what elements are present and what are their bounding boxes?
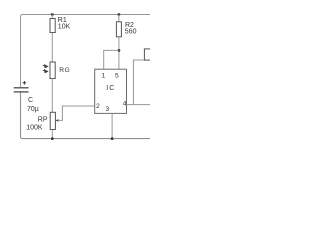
op-amp U1 IC box bbox=[95, 69, 127, 113]
svg-text:5: 5 bbox=[115, 72, 119, 79]
svg-text:560: 560 bbox=[125, 29, 137, 36]
svg-text:2: 2 bbox=[96, 103, 100, 110]
wire pin3 to bottom rail bbox=[111, 113, 113, 138]
svg-text:C: C bbox=[28, 97, 33, 104]
svg-text:1: 1 bbox=[102, 72, 106, 79]
photoresistor RG bbox=[50, 62, 55, 79]
wire R1 top lead bbox=[51, 15, 53, 19]
node R1 top junction bbox=[51, 13, 54, 16]
potentiometer RP bbox=[50, 112, 55, 129]
wire RP bottom to bottom rail bbox=[51, 130, 53, 139]
node RP bottom junction bbox=[51, 137, 54, 140]
svg-text:RP: RP bbox=[38, 117, 48, 124]
wire RG bottom to RP top bbox=[51, 79, 53, 113]
wire R2 top lead bbox=[118, 15, 120, 22]
wire left rail lower + bottom rail bbox=[21, 93, 151, 139]
node jog junction bbox=[118, 49, 121, 52]
svg-text:IC: IC bbox=[106, 85, 115, 92]
wire top rail with rounded left corner bbox=[21, 15, 151, 88]
svg-text:10K: 10K bbox=[58, 24, 71, 31]
resistor R1 bbox=[50, 19, 55, 33]
svg-text:70µ: 70µ bbox=[27, 106, 39, 113]
wire R1 bottom to RG top bbox=[51, 33, 53, 63]
capacitor C top plate bbox=[14, 87, 29, 89]
RG light arrows bbox=[43, 65, 48, 73]
svg-text:4: 4 bbox=[123, 100, 127, 107]
wire pin4 to right edge bbox=[126, 104, 150, 106]
wire jog horizontal to pin1 bbox=[104, 50, 119, 69]
capacitor C plus sign bbox=[23, 81, 27, 85]
svg-text:100K: 100K bbox=[26, 124, 43, 131]
wire R2 bottom to pin5 bbox=[118, 37, 120, 69]
node R2 top junction bbox=[118, 13, 121, 16]
load component partial rect at right edge bbox=[144, 49, 152, 60]
RP wiper arrow bbox=[56, 106, 95, 122]
svg-text:RG: RG bbox=[59, 67, 70, 74]
resistor R2 bbox=[116, 22, 121, 37]
capacitor C bottom plate bbox=[14, 91, 29, 93]
wire right component down lead bbox=[133, 60, 144, 105]
svg-text:3: 3 bbox=[106, 106, 110, 113]
node pin3 bottom junction bbox=[111, 137, 114, 140]
